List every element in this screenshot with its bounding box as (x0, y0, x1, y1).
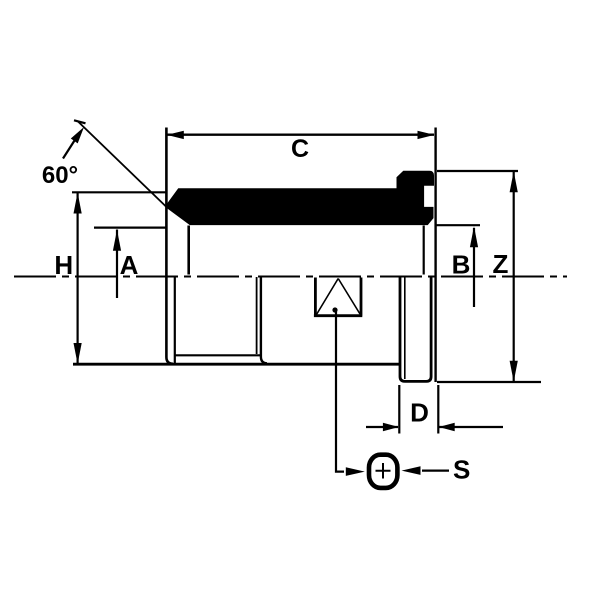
body bottom edge merged with H extension line (73, 363, 400, 366)
section body (black cut face with chamfered left tip and right collar bump) (166, 171, 434, 224)
svg-text:C: C (291, 135, 309, 163)
Z dimension line (513, 172, 515, 382)
Z top extension line (437, 170, 518, 172)
A arrowhead (113, 230, 121, 251)
D left extension line (398, 385, 400, 434)
lower-half counterbore vertical with corner into bottom edge (261, 277, 267, 363)
svg-text:H: H (54, 250, 73, 280)
C right arrowhead (418, 131, 435, 139)
H top extension line (72, 191, 166, 193)
left outer face line of body (also C extension line) (166, 128, 173, 364)
S right arrow line (422, 470, 449, 472)
left chamfer circle line (lower half) (174, 277, 176, 363)
S right arrowhead (pointing left at symbol) (402, 466, 421, 475)
svg-text:B: B (452, 250, 471, 280)
right face line of part (x=435.5 from above C line to flange bottom) (434, 128, 436, 383)
flange inner double line (404, 277, 406, 379)
A dimension line (half, arrow up) (116, 230, 118, 299)
S leader dot at pocket (332, 307, 337, 312)
B extension line (437, 224, 481, 226)
svg-text:A: A (120, 250, 139, 280)
flange outline (lower right, rounded bottom corners) (400, 276, 431, 381)
D right arrowhead (pointing left) (439, 423, 455, 431)
svg-text:Z: Z (493, 249, 509, 279)
D left arrowhead (pointing right) (383, 423, 399, 431)
60 degree chamfer reference diagonal (78, 122, 167, 208)
C dimension line (168, 133, 435, 135)
D right extension line (437, 385, 439, 434)
tick at top of diagonal (74, 120, 86, 123)
lower-half thread inner vertical (256, 277, 258, 354)
60 degree leader arrow (63, 134, 79, 159)
upper-half bore wall vertical right (423, 226, 425, 275)
S leader polyline (336, 311, 344, 472)
A extension line (94, 227, 166, 229)
svg-text:D: D (410, 398, 429, 428)
drill point triangle inside pocket (317, 279, 361, 315)
D dimension line right segment (439, 426, 503, 428)
S symbol (barrel with plus) (369, 455, 397, 488)
svg-text:60°: 60° (42, 162, 78, 189)
B arrowhead (470, 226, 478, 247)
svg-text:S: S (453, 455, 470, 485)
Z bottom arrowhead (510, 361, 518, 382)
H top arrowhead (74, 193, 82, 214)
upper-half bore wall vertical left (187, 226, 190, 275)
S leader arrowhead (pointing right at symbol) (346, 467, 365, 476)
H bottom arrowhead (74, 343, 82, 364)
B dimension line (half, arrow up) (473, 228, 475, 307)
pocket (U shaped recess at bore bottom) (314, 278, 362, 316)
lower-half bore bottom line (175, 354, 261, 356)
centerline (horizontal dash-dot axis) (14, 276, 567, 278)
D dimension line left segment (366, 426, 398, 428)
Z top arrowhead (510, 171, 518, 192)
Z bottom extension line (437, 381, 541, 383)
H dimension line (76, 193, 78, 364)
C left arrowhead (167, 131, 184, 139)
plus sign (376, 463, 391, 479)
